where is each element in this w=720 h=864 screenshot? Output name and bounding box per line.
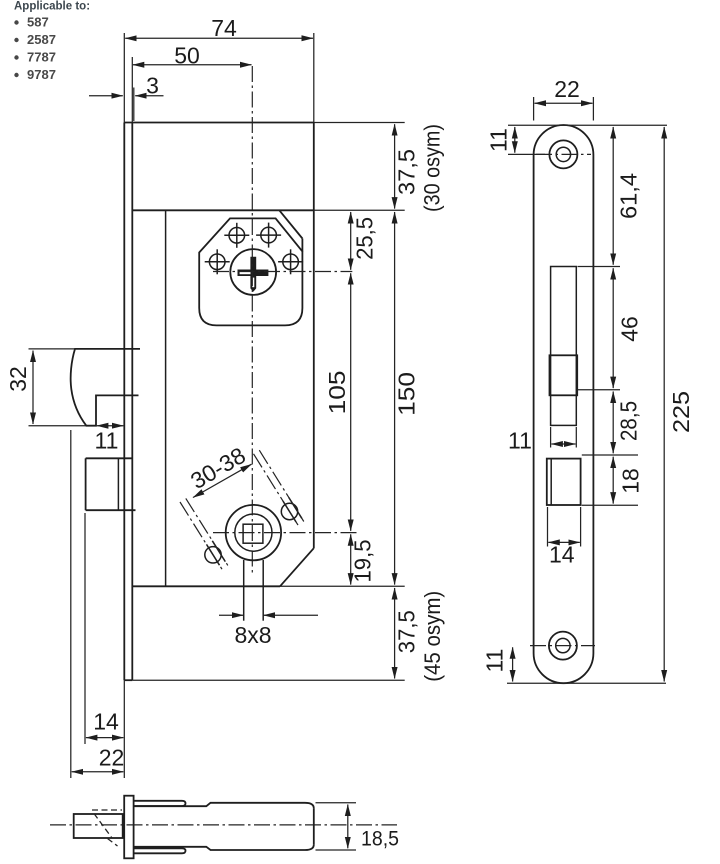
- dimension 18: [582, 457, 644, 506]
- case bottom line: [132, 585, 280, 587]
- spindle: [74, 814, 123, 838]
- svg-text:225: 225: [668, 391, 694, 433]
- dimension 225: [664, 127, 694, 682]
- cylinder mounting plate: [199, 210, 302, 325]
- svg-text:11: 11: [482, 649, 508, 673]
- dimension 3: [89, 73, 164, 122]
- case bottom extension: [280, 585, 405, 587]
- dimension 14 bolt throw: [85, 513, 123, 744]
- handing range line U1: [254, 454, 299, 525]
- dimension 30-38: [186, 442, 251, 498]
- dimension 11 latch: [95, 426, 124, 454]
- svg-text:3: 3: [146, 73, 159, 99]
- svg-text:74: 74: [211, 15, 237, 41]
- svg-text:11: 11: [95, 428, 119, 454]
- case inner vertical line: [165, 210, 167, 586]
- faceplate outline: [534, 125, 594, 683]
- deadbolt: [86, 458, 136, 510]
- dimension 150: [394, 212, 420, 585]
- handing range line L1: [180, 502, 222, 569]
- title text block: [14, 1, 90, 83]
- svg-text:28,5: 28,5: [616, 401, 642, 441]
- dimension 28,5: [582, 392, 642, 456]
- dimension 11 bottom screw: [482, 647, 667, 683]
- dimension 14 deadbolt width: [548, 507, 581, 568]
- dimension 37,5 (45 osym): [394, 588, 445, 682]
- case lip top: [134, 801, 186, 806]
- handing cam lower-left: [205, 541, 226, 565]
- dimension 11 latch opening width: [508, 427, 576, 454]
- svg-text:(45 osym): (45 osym): [420, 591, 445, 682]
- follower square hole: [243, 524, 263, 543]
- plate screw top-right: [256, 223, 281, 248]
- dimension 50: [132, 43, 251, 123]
- svg-text:32: 32: [5, 366, 31, 392]
- case body top profile: [134, 803, 314, 808]
- svg-text:14: 14: [93, 709, 119, 735]
- svg-text:7787: 7787: [27, 50, 56, 65]
- bottom view center line: [50, 824, 397, 826]
- handing range line U2: [259, 450, 304, 521]
- svg-text:11: 11: [508, 428, 532, 454]
- dimension 74: [125, 15, 313, 41]
- cylinder circle: [230, 249, 276, 295]
- latch opening: [550, 267, 578, 426]
- svg-text:22: 22: [99, 745, 125, 771]
- dimension 8x8: [219, 615, 318, 648]
- handing range line L2: [186, 498, 228, 565]
- svg-text:18: 18: [618, 468, 644, 494]
- svg-text:Applicable to:: Applicable to:: [14, 1, 90, 13]
- dimension 22 latch throw: [71, 430, 124, 778]
- dimension 19,5: [350, 534, 376, 584]
- dimension 37,5 (30 osym): [394, 124, 445, 212]
- svg-text:37,5: 37,5: [394, 149, 420, 195]
- dimension 18,5: [316, 803, 400, 851]
- faceplate section: [124, 796, 133, 859]
- spindle hidden lines: [92, 810, 122, 846]
- dimension 32: [5, 349, 86, 426]
- dimension 11 top screw: [486, 125, 668, 154]
- svg-text:37,5: 37,5: [394, 610, 420, 653]
- svg-text:150: 150: [394, 372, 420, 416]
- dimension 22 plate width: [534, 76, 594, 121]
- svg-text:19,5: 19,5: [350, 540, 376, 583]
- case right edge extension up: [313, 33, 315, 123]
- follower inner circle: [235, 514, 272, 551]
- lock top edge: [124, 122, 313, 124]
- case corner chamfer: [280, 548, 314, 586]
- follower stem left: [243, 560, 245, 621]
- dimension 61,4: [613, 127, 641, 265]
- case body bottom profile: [134, 845, 314, 850]
- dimension 46: [578, 267, 643, 390]
- plate screw mid-left: [205, 249, 230, 274]
- faceplate bottom extension line: [132, 679, 404, 681]
- case top extension: [314, 209, 405, 211]
- top screw hole: [536, 140, 591, 168]
- dimension 105: [324, 273, 351, 531]
- svg-text:50: 50: [174, 43, 200, 69]
- cylinder horizontal center line: [213, 271, 352, 273]
- bottom screw hole: [530, 632, 595, 660]
- follower stem right: [262, 560, 264, 621]
- case top line: [132, 209, 313, 211]
- svg-text:8x8: 8x8: [234, 622, 271, 648]
- svg-text:(30 osym): (30 osym): [420, 124, 445, 212]
- cylinder cross spindle: [238, 257, 269, 292]
- svg-text:14: 14: [549, 542, 575, 568]
- faceplate left edge extension up: [123, 33, 125, 123]
- deadbolt opening: [547, 459, 581, 505]
- svg-text:30-38: 30-38: [186, 442, 250, 494]
- latch bolt: [71, 349, 140, 426]
- case body right edge: [313, 808, 315, 844]
- faceplate left edge extension down: [123, 680, 125, 778]
- top edge extension: [314, 122, 405, 124]
- svg-text:105: 105: [324, 370, 350, 414]
- follower horizontal center line: [213, 532, 358, 534]
- case right edge: [313, 123, 315, 549]
- dimension 25,5: [351, 212, 378, 270]
- plate screw top-left: [224, 223, 249, 248]
- plate screw mid-right: [278, 249, 303, 274]
- faceplate edge strip: [124, 123, 132, 681]
- follower outer circle: [226, 505, 281, 560]
- svg-text:18,5: 18,5: [361, 828, 399, 851]
- svg-text:22: 22: [554, 76, 580, 102]
- svg-text:9787: 9787: [27, 67, 56, 82]
- svg-text:46: 46: [617, 316, 643, 342]
- svg-text:587: 587: [27, 15, 49, 30]
- svg-text:11: 11: [486, 128, 512, 152]
- svg-text:61,4: 61,4: [616, 173, 642, 219]
- svg-text:25,5: 25,5: [352, 217, 378, 260]
- svg-text:2587: 2587: [27, 32, 56, 47]
- handing cam upper-right: [281, 498, 302, 522]
- case lip bottom: [134, 848, 186, 853]
- vertical center line: [251, 66, 253, 576]
